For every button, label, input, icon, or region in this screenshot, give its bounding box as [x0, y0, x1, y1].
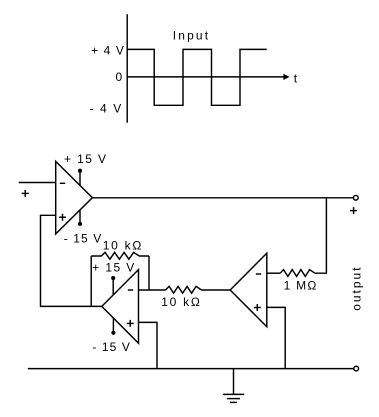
- U1 inverting input wire: [19, 182, 56, 184]
- R1 right leg wire: [148, 256, 150, 290]
- bottom rail wire: [28, 368, 354, 370]
- wire R2 to U3 output: [202, 289, 231, 291]
- U2 inverting pin mark: [128, 289, 133, 291]
- output return terminal: [354, 366, 359, 371]
- U1 output wire to + output terminal: [92, 197, 353, 199]
- waveform vertical axis: [126, 14, 128, 123]
- svg-text:+ 4 V: + 4 V: [91, 44, 125, 58]
- svg-text:- 4 V: - 4 V: [89, 101, 122, 115]
- wire R3 to output node: [315, 198, 327, 273]
- U2 inverting input wire: [139, 289, 166, 291]
- input square wave: [127, 49, 267, 105]
- input + polarity label: [22, 190, 29, 197]
- U1 -15V supply stub: [78, 210, 82, 226]
- svg-text:- 15 V: - 15 V: [64, 232, 103, 246]
- resistor R3 1 MOhm: [280, 270, 315, 277]
- + terminal polarity label: [350, 207, 357, 214]
- U2 non-inverting pin mark: [127, 320, 134, 327]
- resistor R1 10 kOhm feedback: [91, 252, 149, 259]
- op-amp U1: [56, 161, 93, 234]
- svg-text:+ 15 V: + 15 V: [64, 152, 107, 166]
- svg-text:10 kΩ: 10 kΩ: [103, 239, 143, 253]
- U1 inverting pin mark: [60, 182, 65, 184]
- time axis with arrow: [127, 74, 289, 80]
- U2 non-inverting input wire: [139, 322, 158, 368]
- U3 inverting pin mark: [256, 273, 261, 275]
- svg-text:output: output: [350, 265, 364, 310]
- U3 non-inverting pin mark: [254, 304, 261, 311]
- U3 non-inverting input wire: [267, 307, 285, 368]
- svg-text:t: t: [294, 71, 298, 85]
- ground: [223, 369, 244, 403]
- U1 +15V supply stub: [78, 169, 82, 186]
- U2 -15V supply stub: [111, 318, 115, 335]
- R1 left leg wire: [90, 256, 92, 306]
- svg-text:1 MΩ: 1 MΩ: [284, 278, 318, 292]
- U3 inverting input wire: [267, 272, 280, 274]
- op-amp U2: [102, 270, 139, 344]
- U1 non-inverting pin mark: [59, 214, 66, 221]
- svg-text:+ 15 V: + 15 V: [92, 260, 135, 274]
- wire from U2 output to U1 non-inverting input: [41, 215, 102, 306]
- svg-text:- 15 V: - 15 V: [92, 340, 131, 354]
- resistor R2 10 kOhm series: [166, 286, 202, 293]
- U2 +15V supply stub: [111, 276, 115, 295]
- svg-text:10 kΩ: 10 kΩ: [161, 295, 201, 309]
- svg-text:0: 0: [116, 70, 124, 84]
- svg-text:Input: Input: [173, 28, 210, 42]
- op-amp U3: [230, 253, 267, 327]
- + output terminal: [353, 195, 358, 200]
